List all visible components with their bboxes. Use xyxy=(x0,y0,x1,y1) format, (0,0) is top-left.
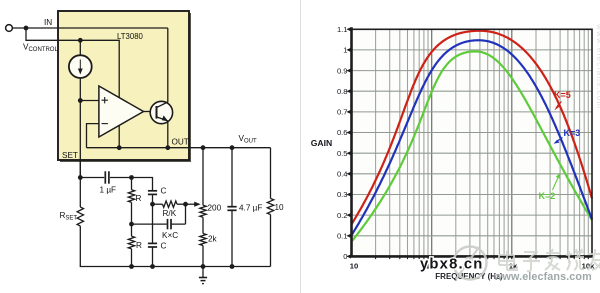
svg-text:0.6: 0.6 xyxy=(337,128,348,137)
svg-text:1 µF: 1 µF xyxy=(100,186,117,195)
input terminal xyxy=(6,25,13,32)
svg-text:ybx8.cn: ybx8.cn xyxy=(420,257,484,273)
node emitter junction xyxy=(165,145,170,150)
wire to plus input xyxy=(80,100,99,102)
ground xyxy=(199,267,207,284)
resistor RSET xyxy=(77,207,83,226)
svg-text:IN: IN xyxy=(44,18,52,27)
node SET/1uF junction xyxy=(78,175,83,180)
resistor 2k xyxy=(200,234,206,246)
svg-text:0: 0 xyxy=(343,252,347,261)
K=3 blue curve label xyxy=(554,128,581,144)
svg-text:R/K: R/K xyxy=(163,209,177,218)
node C column / R-K junction xyxy=(150,202,155,207)
wire op-amp output to transistor base xyxy=(144,111,157,113)
wire OUT rail xyxy=(87,147,271,149)
node cap branch junction xyxy=(230,145,235,150)
divider line xyxy=(300,0,302,293)
junction node on IN wire xyxy=(24,26,29,31)
svg-text:C: C xyxy=(161,187,167,196)
wire R column bottom xyxy=(131,249,133,267)
potentiometer 200 branch wire xyxy=(202,148,204,206)
node 2k ground junction xyxy=(201,264,206,269)
wire Vcontrol to op-amp V+ xyxy=(80,40,119,97)
chart horizontal gridlines xyxy=(352,50,593,236)
node 4.7uF ground junction xyxy=(230,264,235,269)
resistor R/K xyxy=(153,203,163,205)
LT3080 ic body xyxy=(58,11,189,160)
node R column middle xyxy=(129,222,134,227)
chart bottom axis (thick) xyxy=(351,255,594,258)
svg-text:SET: SET xyxy=(62,151,78,160)
svg-text:10: 10 xyxy=(275,203,285,212)
wire op-amp bottom to OUT rail xyxy=(118,126,120,148)
x-axis labels xyxy=(350,261,595,270)
svg-text:0.7: 0.7 xyxy=(337,108,348,117)
svg-text:www.elecfans.com: www.elecfans.com xyxy=(595,23,600,109)
svg-text:GAIN: GAIN xyxy=(311,138,332,148)
K=5 red curve label xyxy=(554,90,571,111)
red curve K=5 xyxy=(352,31,593,225)
wire KxC riser xyxy=(185,204,187,224)
resistor R upper xyxy=(128,190,134,203)
svg-text:R: R xyxy=(136,194,142,203)
node R column ground xyxy=(129,264,134,269)
op-amp minus sign xyxy=(102,123,108,125)
wire minus input feedback xyxy=(87,124,99,148)
op-amp U1 xyxy=(99,86,144,137)
svg-text:0.2: 0.2 xyxy=(337,211,348,220)
K=2 green curve label xyxy=(539,173,561,201)
wire C column middle xyxy=(152,194,154,243)
node Vcontrol junction xyxy=(78,38,83,43)
svg-text:10: 10 xyxy=(350,261,358,270)
wire C column bottom xyxy=(152,247,154,267)
svg-text:K=5: K=5 xyxy=(554,90,571,100)
svg-text:2k: 2k xyxy=(208,235,218,244)
y-axis labels xyxy=(337,25,348,261)
resistor R lower xyxy=(128,236,134,249)
wire R column top xyxy=(131,178,133,190)
svg-text:www.elecfans.com: www.elecfans.com xyxy=(493,271,592,283)
svg-text:4.7 µF: 4.7 µF xyxy=(239,204,262,213)
capacitor KxC xyxy=(132,219,186,229)
wire collector to IN xyxy=(167,28,169,102)
node R column top xyxy=(129,175,134,180)
wire IN horizontal xyxy=(12,27,167,29)
x-axis minor ticks xyxy=(376,256,589,259)
op-amp plus sign xyxy=(102,97,108,103)
svg-text:0.8: 0.8 xyxy=(337,87,348,96)
capacitor 1uF xyxy=(80,171,131,183)
wire RSET to ground rail xyxy=(80,226,270,267)
watermark logo circle (elecfans) xyxy=(454,247,487,280)
chart frame xyxy=(352,29,593,256)
wiper arrow to pot xyxy=(186,203,196,205)
svg-text:0.3: 0.3 xyxy=(337,190,348,199)
svg-text:0.9: 0.9 xyxy=(337,66,348,75)
svg-text:0.1: 0.1 xyxy=(337,232,348,241)
capacitor C upper xyxy=(148,191,157,195)
wire SET column xyxy=(79,161,81,207)
wire 1uF to C column xyxy=(132,178,153,191)
resistor 10 xyxy=(267,199,273,215)
resistor 10 branch xyxy=(270,148,272,199)
current source I1 xyxy=(69,55,92,78)
green curve K=2 xyxy=(352,51,593,241)
svg-text:R: R xyxy=(136,241,142,250)
node op-amp bottom junction xyxy=(117,145,122,150)
wire current source stem xyxy=(79,40,81,177)
chart minor vertical gridlines xyxy=(376,29,589,259)
capacitor 4.7uF branch xyxy=(231,148,233,267)
chart major vertical gridlines (100 Hz and 1 kHz) xyxy=(432,29,512,259)
svg-text:1: 1 xyxy=(343,46,347,55)
svg-text:C: C xyxy=(161,242,167,251)
svg-text:K=2: K=2 xyxy=(539,191,556,201)
svg-text:0.5: 0.5 xyxy=(337,149,348,158)
transistor Q1 xyxy=(150,101,172,123)
svg-text:LT3080: LT3080 xyxy=(117,32,144,41)
wire emitter down xyxy=(167,121,169,148)
node wiper junction xyxy=(183,202,188,207)
potentiometer 200 xyxy=(200,205,206,217)
node op-amp plus input junction xyxy=(78,98,83,103)
wire Vcontrol xyxy=(26,28,80,40)
watermark chinese characters xyxy=(499,249,600,271)
svg-text:200: 200 xyxy=(208,204,222,213)
node pot branch junction xyxy=(201,145,206,150)
blue curve K=3 xyxy=(352,40,593,235)
chart left axis (thick) xyxy=(350,27,353,257)
LT3080 ic body shadow xyxy=(60,13,191,162)
chart plot background xyxy=(352,29,593,256)
svg-text:K=3: K=3 xyxy=(564,128,581,138)
svg-text:0.4: 0.4 xyxy=(337,170,348,179)
svg-text:K×C: K×C xyxy=(162,231,178,240)
node C column ground xyxy=(150,264,155,269)
svg-text:OUT: OUT xyxy=(172,138,189,147)
svg-text:1.1: 1.1 xyxy=(337,25,348,34)
y-axis tick arrows xyxy=(346,27,351,258)
capacitor C lower xyxy=(148,243,157,247)
